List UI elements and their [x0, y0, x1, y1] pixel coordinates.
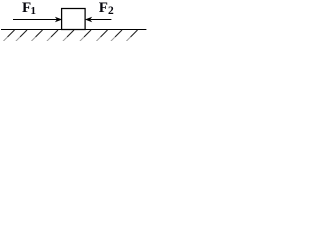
svg-text:2: 2	[108, 5, 114, 17]
svg-text:F: F	[99, 0, 108, 16]
svg-text:1: 1	[31, 5, 37, 17]
